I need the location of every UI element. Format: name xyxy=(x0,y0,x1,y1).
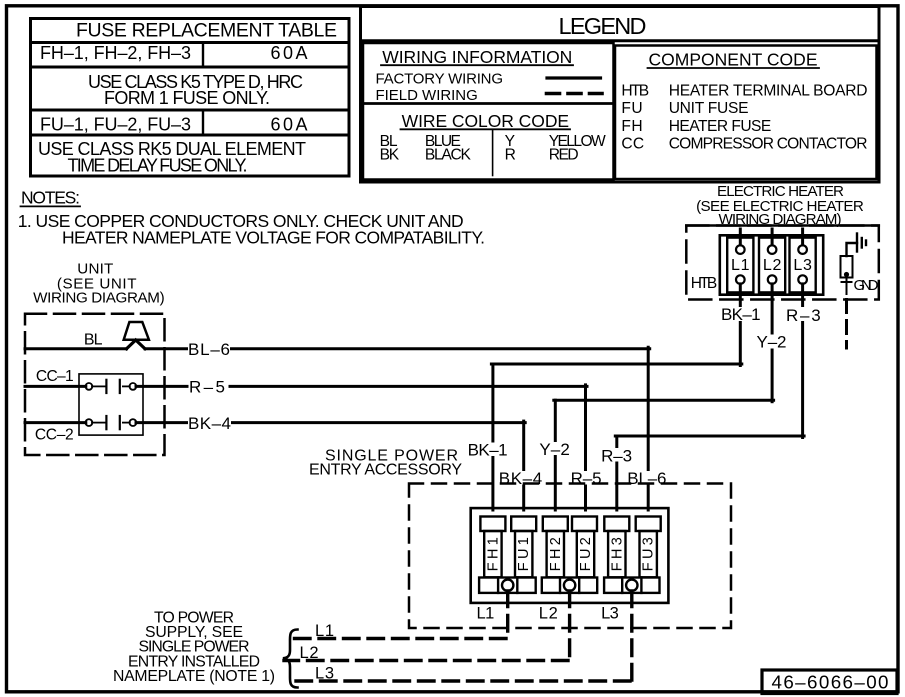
svg-text:FUSE REPLACEMENT TABLE: FUSE REPLACEMENT TABLE xyxy=(76,20,337,42)
svg-text:BL: BL xyxy=(84,331,103,348)
svg-text:WIRING DIAGRAM): WIRING DIAGRAM) xyxy=(33,289,164,306)
label L1 field xyxy=(315,622,334,640)
fuse FU2 xyxy=(572,517,597,578)
svg-text:ENTRY ACCESSORY: ENTRY ACCESSORY xyxy=(309,462,462,479)
plug symbol BL xyxy=(124,322,149,349)
terminal L1 xyxy=(727,238,753,293)
single power entry accessory label xyxy=(309,448,462,479)
label HTB xyxy=(691,275,718,292)
wiring information title xyxy=(381,47,573,67)
svg-text:FH: FH xyxy=(621,118,642,135)
fuse FU3 xyxy=(636,517,661,578)
svg-text:RED: RED xyxy=(549,146,579,163)
svg-text:60A: 60A xyxy=(271,114,308,134)
svg-text:FH–1, FH–2, FH–3: FH–1, FH–2, FH–3 xyxy=(40,43,191,63)
svg-text:R: R xyxy=(505,146,516,163)
label BK-4 fuse xyxy=(499,469,542,488)
svg-text:BK–4: BK–4 xyxy=(499,469,542,488)
svg-text:FU3: FU3 xyxy=(641,537,657,571)
fuse table row FU xyxy=(40,114,308,134)
svg-text:TIME DELAY FUSE ONLY.: TIME DELAY FUSE ONLY. xyxy=(68,155,248,175)
svg-text:L2: L2 xyxy=(763,257,782,274)
svg-text:FACTORY WIRING: FACTORY WIRING xyxy=(376,70,504,87)
label L2 field xyxy=(300,644,319,662)
label R-5 fuse xyxy=(571,469,602,488)
svg-text:CC: CC xyxy=(621,135,644,152)
wire R-5 horizontal xyxy=(136,385,587,388)
wire R-5 drop xyxy=(584,385,587,510)
svg-text:WIRE COLOR CODE: WIRE COLOR CODE xyxy=(402,111,569,131)
svg-text:HEATER NAMEPLATE VOLTAGE FOR C: HEATER NAMEPLATE VOLTAGE FOR COMPATABILI… xyxy=(62,228,485,248)
ground symbol xyxy=(847,234,867,257)
brace xyxy=(283,630,298,688)
fuse table title xyxy=(76,20,337,42)
svg-text:BL–6: BL–6 xyxy=(627,469,666,488)
fuse FH3 xyxy=(604,517,629,578)
svg-text:R–5: R–5 xyxy=(189,378,225,397)
electric heater label xyxy=(696,183,864,228)
unit label xyxy=(33,261,164,307)
wire color divider xyxy=(492,130,494,176)
svg-text:R–3: R–3 xyxy=(601,447,632,466)
heater feed wires top xyxy=(740,229,802,245)
wire color code box xyxy=(363,104,614,180)
svg-text:FH1: FH1 xyxy=(485,537,501,571)
svg-text:FH3: FH3 xyxy=(609,537,625,571)
factory wiring row xyxy=(376,70,601,87)
svg-text:L1: L1 xyxy=(731,257,750,274)
drawing number box xyxy=(762,670,897,694)
svg-text:HEATER TERMINAL BOARD: HEATER TERMINAL BOARD xyxy=(669,82,868,99)
svg-text:FU: FU xyxy=(621,100,642,117)
fuse table FH note xyxy=(88,72,303,108)
svg-text:L1: L1 xyxy=(477,605,495,623)
accessory dashed box xyxy=(409,484,731,629)
fuse replacement table box xyxy=(31,19,350,177)
svg-text:FU–1, FU–2, FU–3: FU–1, FU–2, FU–3 xyxy=(40,114,191,134)
label BL-6 fuse xyxy=(627,469,666,488)
wire BK-1 xyxy=(491,284,741,510)
contactor CC box xyxy=(79,374,143,435)
label L2 fuse block xyxy=(539,605,558,623)
svg-text:CC–1: CC–1 xyxy=(36,368,74,385)
svg-text:Y–2: Y–2 xyxy=(757,333,787,352)
component code title xyxy=(648,50,820,70)
field wiring row xyxy=(376,87,603,104)
label L3 fuse block xyxy=(601,605,619,623)
svg-text:FH2: FH2 xyxy=(548,537,564,571)
wire color entries xyxy=(380,133,606,163)
wire BK-4 drop xyxy=(522,421,525,510)
svg-text:L2: L2 xyxy=(300,644,319,662)
svg-text:Y–2: Y–2 xyxy=(539,440,569,459)
terminal L3 xyxy=(790,238,816,293)
label CC-2 xyxy=(35,427,74,444)
svg-text:L3: L3 xyxy=(601,605,619,623)
component code entries xyxy=(621,82,867,152)
svg-text:BK–4: BK–4 xyxy=(188,414,231,433)
notes heading xyxy=(21,188,81,208)
unit dashed box xyxy=(25,314,165,455)
svg-text:L3: L3 xyxy=(315,664,334,682)
fuse table row FH xyxy=(40,43,308,63)
svg-text:COMPONENT CODE: COMPONENT CODE xyxy=(649,50,818,70)
svg-text:GND: GND xyxy=(854,277,879,294)
label GND xyxy=(854,277,879,294)
fuse holder bar L1 xyxy=(479,578,536,593)
svg-text:BK–1: BK–1 xyxy=(721,305,761,324)
wire R-3 xyxy=(615,284,804,510)
wiring information box xyxy=(363,43,614,104)
fuse holder bar L3 xyxy=(604,578,659,593)
fuse table FU note xyxy=(38,139,306,176)
contact CC-1 xyxy=(25,380,136,393)
note 1 text xyxy=(18,211,485,248)
label R-3 fuse xyxy=(601,447,632,466)
svg-text:COMPRESSOR CONTACTOR: COMPRESSOR CONTACTOR xyxy=(669,135,868,152)
svg-text:FIELD WIRING: FIELD WIRING xyxy=(376,87,478,104)
label R-5 xyxy=(189,378,225,397)
svg-text:FORM 1 FUSE ONLY.: FORM 1 FUSE ONLY. xyxy=(104,88,270,108)
svg-text:R–5: R–5 xyxy=(571,469,602,488)
label BK-4 xyxy=(188,414,231,433)
field wire L2 xyxy=(284,591,570,661)
fuse FH2 xyxy=(543,517,568,578)
svg-text:BLACK: BLACK xyxy=(425,146,472,163)
svg-text:LEGEND: LEGEND xyxy=(559,13,647,39)
label R-3 heater xyxy=(786,306,821,325)
wire color code title xyxy=(401,111,571,131)
wire BK-4 horizontal xyxy=(136,421,525,424)
fuse block box xyxy=(471,508,669,603)
component code box xyxy=(615,46,877,180)
ground lug xyxy=(841,256,853,294)
svg-text:WIRING INFORMATION: WIRING INFORMATION xyxy=(382,47,572,67)
field wire L1 xyxy=(289,591,508,639)
svg-text:R–3: R–3 xyxy=(786,306,821,325)
label BL-6 xyxy=(188,340,230,359)
svg-text:BK–1: BK–1 xyxy=(468,441,508,460)
svg-text:46–6066–00: 46–6066–00 xyxy=(772,672,889,693)
drawing number xyxy=(772,672,889,693)
label BK-1 heater xyxy=(721,305,761,324)
svg-text:CC–2: CC–2 xyxy=(35,427,74,444)
terminal L2 xyxy=(759,238,785,293)
label Y-2 fuse xyxy=(539,440,569,459)
svg-text:FU2: FU2 xyxy=(578,537,594,571)
ground field wire stub xyxy=(845,300,848,349)
svg-text:BL–6: BL–6 xyxy=(188,340,230,359)
label BK-1 fuse xyxy=(468,441,508,460)
svg-text:60A: 60A xyxy=(271,43,308,63)
wire BL-6 drop xyxy=(647,347,650,510)
svg-text:HTB: HTB xyxy=(621,82,649,99)
label BL xyxy=(84,331,103,348)
field wire L3 xyxy=(289,591,632,681)
svg-text:L3: L3 xyxy=(793,257,812,274)
svg-text:NOTES:: NOTES: xyxy=(21,188,80,208)
power supply note xyxy=(113,610,275,686)
electric heater dashed box xyxy=(686,226,879,300)
fuse FU1 xyxy=(511,517,536,578)
label CC-1 xyxy=(36,368,74,385)
svg-text:FU1: FU1 xyxy=(516,537,532,571)
label Y-2 heater xyxy=(757,333,787,352)
fuse FH1 xyxy=(480,517,505,578)
legend title xyxy=(559,13,647,39)
wire BL-6 horizontal xyxy=(25,347,650,350)
svg-text:HTB: HTB xyxy=(691,275,718,292)
contact CC-2 xyxy=(25,416,136,429)
svg-text:UNIT FUSE: UNIT FUSE xyxy=(669,100,749,117)
svg-text:L1: L1 xyxy=(315,622,334,640)
wire Y-2 xyxy=(554,284,774,510)
fuse holder bar L2 xyxy=(542,578,597,593)
legend box xyxy=(361,7,880,183)
svg-text:L2: L2 xyxy=(539,605,558,623)
svg-text:BK: BK xyxy=(380,146,400,163)
heater terminal board HTB box xyxy=(720,235,823,294)
svg-text:HEATER FUSE: HEATER FUSE xyxy=(669,118,772,135)
label L1 fuse block xyxy=(477,605,495,623)
svg-text:NAMEPLATE (NOTE 1): NAMEPLATE (NOTE 1) xyxy=(113,668,275,685)
label L3 field xyxy=(315,664,334,682)
